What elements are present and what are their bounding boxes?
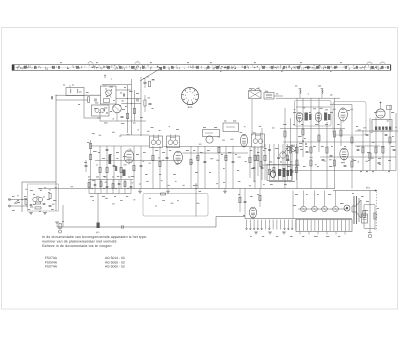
wire bbox=[56, 99, 88, 101]
tube V5 bbox=[340, 148, 348, 161]
IF strip drops bbox=[100, 146, 261, 189]
power supply cluster bbox=[333, 171, 390, 238]
right block labels bbox=[283, 110, 395, 167]
tube V4 bbox=[339, 108, 348, 122]
AGC diode circle bbox=[290, 146, 296, 152]
switch contact bank SK1 bbox=[245, 191, 352, 237]
IF strip components bbox=[99, 147, 262, 173]
pickup box bbox=[143, 194, 208, 217]
IF strip wiring bbox=[91, 135, 252, 161]
input circuit cluster bbox=[8, 182, 59, 215]
IF transformer S1 bbox=[150, 135, 163, 148]
wire input drop A bbox=[62, 205, 64, 227]
magic eye indicator bbox=[372, 102, 392, 131]
capacitor bank right bbox=[287, 134, 396, 166]
output transformer T2 and speaker bbox=[249, 88, 284, 99]
IF labels bbox=[98, 150, 265, 177]
screen box V4 bbox=[333, 102, 366, 136]
plus mark bbox=[111, 77, 113, 81]
tube V6 bbox=[109, 150, 134, 176]
AF amplifier cluster bbox=[88, 177, 133, 197]
svg-text:AG 5000 - 03: AG 5000 - 03 bbox=[105, 265, 125, 269]
comp on bus bbox=[161, 193, 166, 195]
oscillator cluster TS1 bbox=[85, 79, 146, 135]
svg-text:gm: gm bbox=[96, 231, 99, 234]
tube V3 bbox=[315, 112, 330, 123]
detector load components bbox=[249, 128, 264, 182]
tube V2 bbox=[296, 112, 311, 123]
wire speaker to V7 bbox=[251, 99, 253, 136]
tube socket U1 top view bbox=[182, 88, 199, 110]
wire bbox=[56, 94, 101, 96]
capacitor C7 bbox=[143, 78, 155, 88]
switch wafers row bbox=[293, 191, 350, 212]
wire left vertical bbox=[55, 95, 57, 182]
ground symbols bbox=[138, 189, 227, 194]
loudspeaker LS1 bbox=[352, 193, 368, 224]
IF transformer S3 bbox=[252, 133, 265, 148]
left IF column bbox=[84, 140, 97, 189]
bus B+ bbox=[85, 188, 335, 190]
IF transformer S2 bbox=[167, 135, 180, 148]
coil L1 bbox=[63, 85, 84, 96]
resistor R9 bbox=[144, 95, 154, 112]
wire input drop B bbox=[97, 193, 99, 223]
mixer tube V1 bbox=[174, 151, 183, 165]
ratio detector box bbox=[223, 121, 239, 132]
bus chassis bbox=[57, 217, 245, 228]
svg-text:B9A: B9A bbox=[188, 106, 193, 109]
junction blob bbox=[96, 223, 100, 235]
wire pickup bbox=[193, 183, 201, 217]
AGC cluster bbox=[262, 144, 300, 180]
ferrite antenna coils bbox=[276, 86, 340, 99]
svg-text:×: × bbox=[308, 92, 310, 96]
volume control box bbox=[267, 162, 295, 185]
svg-text:F5X74A: F5X74A bbox=[45, 265, 58, 269]
resistor bank right bbox=[284, 129, 391, 167]
detector bbox=[203, 127, 220, 143]
tuner box bbox=[295, 101, 332, 127]
svg-text:B5a: B5a bbox=[366, 187, 371, 190]
chassis comp bbox=[122, 225, 123, 228]
capacitor C2 bbox=[51, 95, 56, 100]
tube V7 bbox=[240, 134, 247, 148]
svg-text:+: + bbox=[111, 77, 113, 81]
dense marks bbox=[298, 136, 308, 150]
wire L1 drop bbox=[78, 96, 101, 119]
HF wiring right bbox=[280, 98, 398, 188]
svg-text:Gelieve in de documentatie toe: Gelieve in de documentatie toe te voegen… bbox=[42, 244, 113, 248]
antenna mark bbox=[104, 75, 106, 79]
ground lug bbox=[55, 222, 59, 227]
electrolytic C30 bbox=[58, 221, 64, 233]
dial pointer bbox=[140, 68, 162, 82]
model table bbox=[45, 256, 125, 269]
component value labels bbox=[15, 107, 397, 206]
AF driver cluster bbox=[238, 189, 261, 220]
wire bbox=[38, 188, 85, 190]
dial scale strip bbox=[12, 62, 391, 72]
note text bbox=[42, 235, 148, 248]
wire hook bbox=[282, 145, 295, 154]
wire osc output bbox=[140, 77, 142, 136]
